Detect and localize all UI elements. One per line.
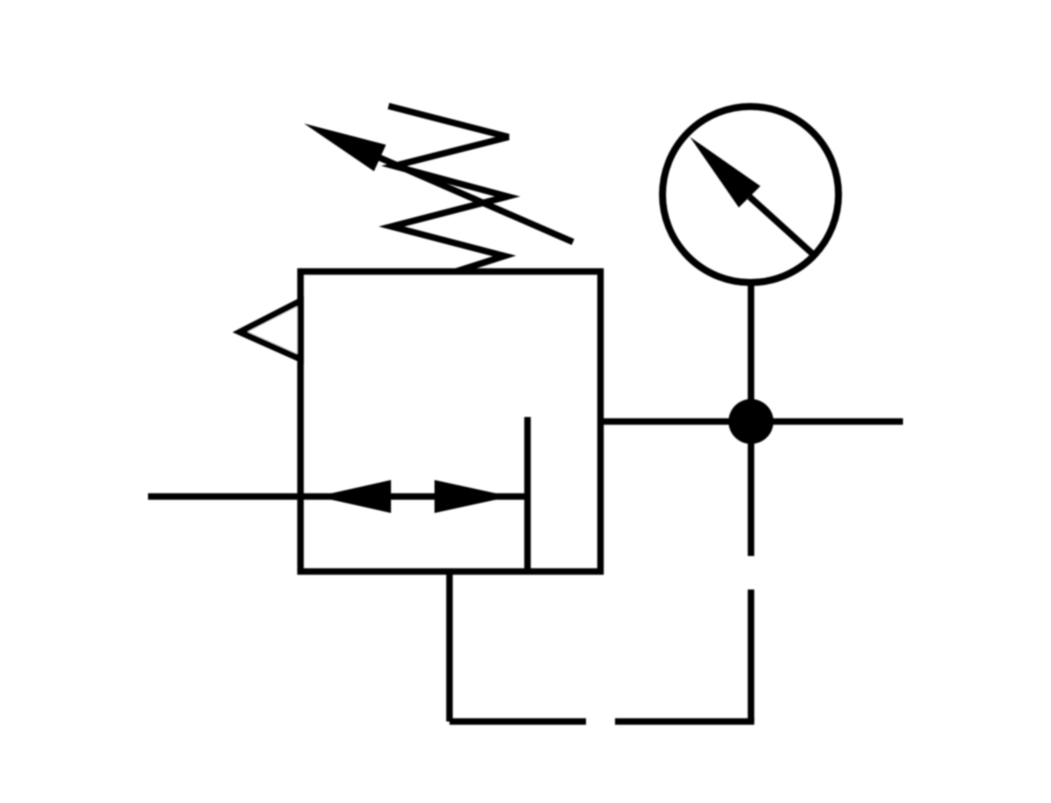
regulator body (valve box) <box>301 272 601 572</box>
wire: feedback riser to body bottom <box>446 572 453 722</box>
adjustment arrow shaft <box>378 157 573 242</box>
wire: gauge drop line <box>748 281 755 422</box>
pressure gauge G1 body <box>663 107 839 283</box>
pilot sense line (inner vertical) <box>524 417 531 572</box>
wire: feedback vertical dash 2 <box>748 590 755 722</box>
adjustment arrowhead <box>304 124 386 172</box>
gauge needle shaft <box>750 197 815 256</box>
wire: feedback bottom dash right <box>615 718 751 721</box>
wire: feedback vertical dash 1 <box>748 422 755 556</box>
relief vent triangle <box>240 301 301 359</box>
flow arrow right head <box>435 480 511 513</box>
wire: inlet line (port 1) <box>148 493 528 500</box>
spring (pressure adjustment zigzag) <box>389 106 509 272</box>
node: junction dot <box>729 399 774 444</box>
gauge needle arrowhead <box>690 137 760 208</box>
flow arrow left head <box>317 480 391 513</box>
wire: feedback bottom dash left <box>450 718 587 725</box>
wire: outlet line (port 2) <box>601 418 904 425</box>
